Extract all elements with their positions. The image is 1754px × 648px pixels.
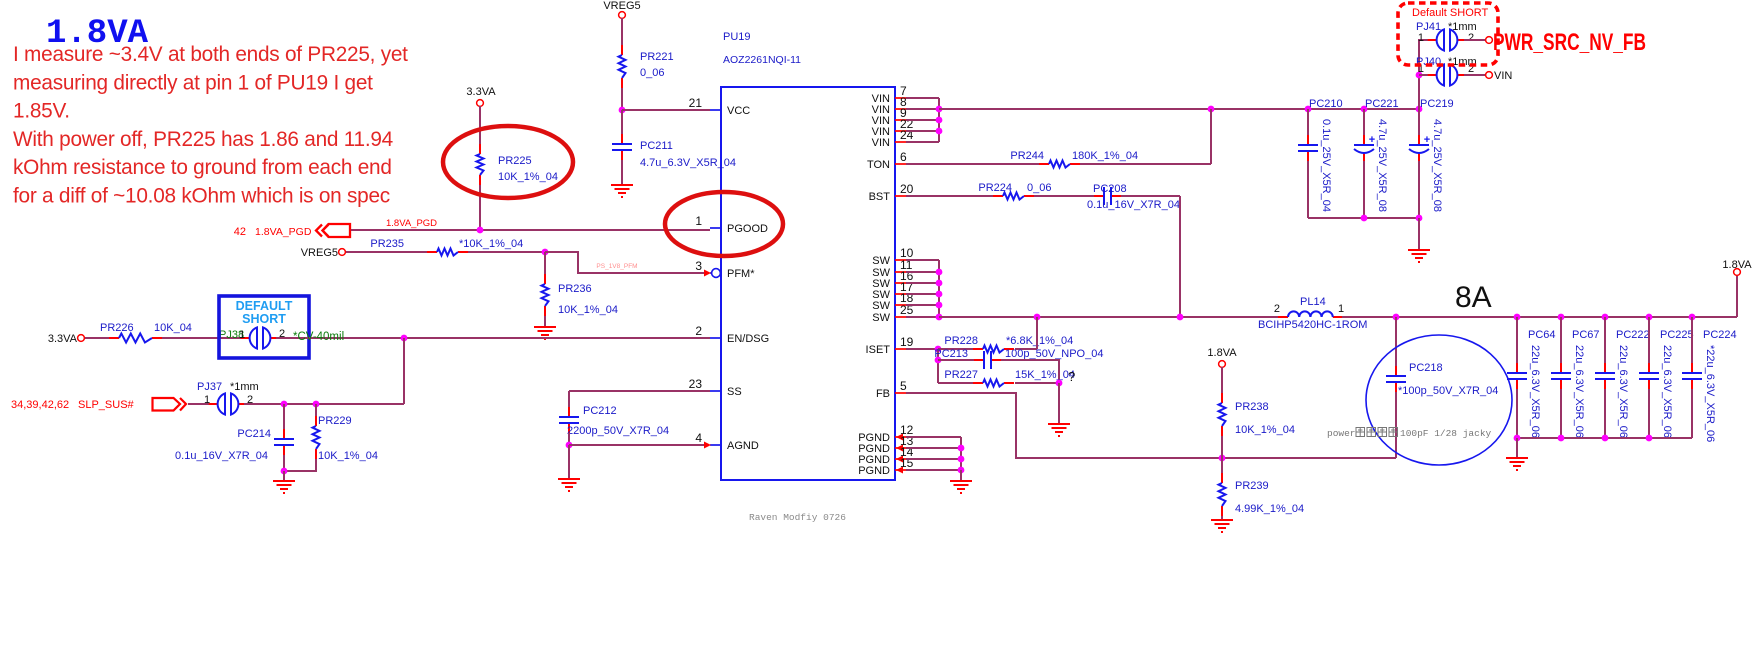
svg-text:VREG5: VREG5 xyxy=(301,247,338,259)
svg-text:?: ? xyxy=(1068,369,1075,384)
svg-text:PC221: PC221 xyxy=(1365,98,1399,110)
wire ISET down to PC213/PR227 xyxy=(937,349,939,383)
wire PC211 to ground xyxy=(621,160,623,185)
resistor PR238 10K_1%_04 xyxy=(1221,393,1223,403)
node SW/PR228 riser junction xyxy=(1034,314,1041,321)
pin 4 AGND xyxy=(710,444,721,446)
svg-text:PGOOD: PGOOD xyxy=(727,223,768,235)
node VIN rail junction PC219 xyxy=(1416,106,1423,113)
wire PC221 to bottom rail xyxy=(1363,161,1365,218)
svg-text:PR228: PR228 xyxy=(944,335,978,347)
wire SS down to PC212 xyxy=(568,391,570,407)
ground under input caps xyxy=(1408,250,1430,262)
resistor PR226 10K_04 xyxy=(109,337,119,339)
svg-text:22u_6.3V_X5R_06: 22u_6.3V_X5R_06 xyxy=(1661,345,1673,438)
ground under PC211 xyxy=(611,185,633,197)
ground under output caps xyxy=(1506,458,1528,470)
svg-text:+: + xyxy=(1369,134,1375,146)
svg-text:PC211: PC211 xyxy=(640,140,673,152)
ground under PR236 xyxy=(534,327,556,339)
wire PR221 to VCC node xyxy=(621,88,623,110)
wire PC218 to FB line xyxy=(1395,392,1397,458)
wire PR244 to VIN rail riser xyxy=(1080,163,1211,165)
svg-text:PC225: PC225 xyxy=(1660,329,1694,341)
svg-text:EN/DSG: EN/DSG xyxy=(727,333,769,345)
svg-text:1: 1 xyxy=(239,329,245,341)
wire PJ40 branch xyxy=(1419,74,1430,76)
svg-text:PR244: PR244 xyxy=(1010,150,1044,162)
svg-text:PR226: PR226 xyxy=(100,322,134,334)
wire PC67 to output bottom rail xyxy=(1560,389,1562,438)
svg-text:I measure ~3.4V at both ends o: I measure ~3.4V at both ends of PR225, y… xyxy=(13,43,408,66)
wire PJ38 to EN/DSG xyxy=(276,337,710,339)
wire PC224 to output bottom rail xyxy=(1691,389,1693,438)
svg-text:1: 1 xyxy=(1338,303,1344,315)
pin 8 VIN xyxy=(895,108,906,110)
capacitor PC225 22u_6.3V_X5R_06 xyxy=(1648,363,1650,372)
wire AGND node to ground xyxy=(568,445,570,479)
svg-text:kOhm resistance to ground from: kOhm resistance to ground from each end xyxy=(13,156,392,179)
svg-text:1.8VA: 1.8VA xyxy=(1207,347,1237,359)
wire down to PC214 xyxy=(283,404,285,429)
jumper PJ38 xyxy=(241,337,251,339)
wire PR226 to PJ38 xyxy=(162,337,244,339)
wire PR227 branch xyxy=(938,382,973,384)
pin 3 PFM* xyxy=(710,272,712,274)
wire junction to PFM xyxy=(545,252,704,273)
svg-text:4.99K_1%_04: 4.99K_1%_04 xyxy=(1235,503,1304,515)
svg-text:PR224: PR224 xyxy=(978,182,1012,194)
pin 14 PGND xyxy=(895,458,906,460)
wire input caps bottom rail xyxy=(1308,217,1419,219)
svg-text:100p_50V_NPO_04: 100p_50V_NPO_04 xyxy=(1005,348,1103,360)
wire PC222 to output bottom rail xyxy=(1604,389,1606,438)
svg-text:PFM*: PFM* xyxy=(727,268,755,280)
wire ISET to PR228 xyxy=(938,348,973,350)
svg-text:TON: TON xyxy=(867,159,890,171)
svg-text:PC213: PC213 xyxy=(934,348,968,360)
svg-text:20: 20 xyxy=(900,182,914,196)
wire PJ37 to EN riser xyxy=(244,403,404,405)
node FB/PR238 junction xyxy=(1219,455,1226,462)
pin 15 PGND xyxy=(895,469,906,471)
wire PR239 to ground xyxy=(1221,516,1223,520)
svg-text:BST: BST xyxy=(869,191,891,203)
wire 1.8VA rail xyxy=(1342,316,1737,318)
svg-text:VIN: VIN xyxy=(872,137,890,149)
capacitor PC211 4.7u_6.3V_X5R_04 xyxy=(621,134,623,143)
pin 1 PGOOD xyxy=(710,227,721,229)
wire VCC xyxy=(622,109,710,111)
wire SW pin bundle xyxy=(906,259,939,261)
wire PC214 to ground node xyxy=(283,455,285,471)
svg-text:8A: 8A xyxy=(1455,281,1492,314)
wire SW bus vertical xyxy=(938,260,940,317)
wire PJ41 to PWR_SRC_NV_FB xyxy=(1464,39,1486,41)
wire PC64 to output bottom rail xyxy=(1516,389,1518,438)
capacitor PC64 22u_6.3V_X5R_06 xyxy=(1516,363,1518,372)
svg-text:PC214: PC214 xyxy=(237,428,271,440)
wire down to ground xyxy=(1058,383,1060,424)
wire rail to PC64 xyxy=(1516,317,1518,363)
node SW bus junctions xyxy=(936,269,943,276)
svg-text:PC222: PC222 xyxy=(1616,329,1650,341)
svg-text:3.3VA: 3.3VA xyxy=(466,86,496,98)
svg-text:PR235: PR235 xyxy=(370,238,404,250)
ground under PR227 xyxy=(1048,424,1070,436)
capacitor PC219 4.7u_25V_X5R_08 xyxy=(1418,135,1420,144)
pin 2 EN/DSG xyxy=(710,337,721,339)
svg-text:4.7u_6.3V_X5R_04: 4.7u_6.3V_X5R_04 xyxy=(640,157,736,169)
svg-text:VCC: VCC xyxy=(727,105,750,117)
node bottom rail junction PC219 xyxy=(1416,215,1423,222)
wire FB node to PR239 xyxy=(1221,458,1223,473)
wire PGND to ground xyxy=(960,470,962,481)
wire riser to EN/DSG xyxy=(403,338,405,404)
jumper PJ37 *1mm xyxy=(209,403,219,405)
pin 13 PGND xyxy=(895,447,906,449)
node PJ40 junction xyxy=(1416,72,1423,79)
wire VCC to PC211 xyxy=(621,110,623,134)
resistor PR236 10K_1%_04 xyxy=(544,274,546,284)
svg-text:*1mm: *1mm xyxy=(230,381,259,393)
node SW/BST riser junction xyxy=(1177,314,1184,321)
capacitor PC221 4.7u_25V_X5R_08 xyxy=(1363,135,1365,144)
wire VIN rail xyxy=(939,108,1419,110)
svg-text:1: 1 xyxy=(204,394,210,406)
pin 5 FB xyxy=(895,392,906,394)
svg-text:Default SHORT: Default SHORT xyxy=(1412,7,1488,19)
svg-text:1.8VA_PGD: 1.8VA_PGD xyxy=(386,218,437,229)
node PC214 junction xyxy=(281,401,288,408)
wire 3.3VA to PR225 xyxy=(479,106,481,144)
node PR235/PR236 junction xyxy=(542,249,549,256)
svg-text:22u_6.3V_X5R_06: 22u_6.3V_X5R_06 xyxy=(1617,345,1629,438)
svg-text:2: 2 xyxy=(1274,303,1280,315)
wire AGND xyxy=(569,444,704,446)
wire VIN bus vertical xyxy=(938,98,940,142)
wire rail to PC218 xyxy=(1395,317,1397,366)
ground under PC214 xyxy=(273,481,295,493)
wire PR225 to 1.8VA_PGD net xyxy=(479,185,481,230)
svg-text:22u_6.3V_X5R_06: 22u_6.3V_X5R_06 xyxy=(1529,345,1541,438)
svg-text:5: 5 xyxy=(900,379,907,393)
pin 20 BST xyxy=(895,195,906,197)
svg-text:4.7u_25V_X5R_08: 4.7u_25V_X5R_08 xyxy=(1376,119,1388,212)
wire junction down to PR236 xyxy=(544,252,546,274)
node PGND bus junctions xyxy=(958,445,965,452)
op-amp U1 PU19 AOZ2261NQI-11 chip body xyxy=(721,87,895,480)
red ellipse highlight around PGOOD pin xyxy=(665,192,783,256)
wire riser PR228 to SW xyxy=(1036,317,1038,349)
power flag 1.8VA right xyxy=(1736,276,1738,317)
pin 24 VIN xyxy=(895,141,906,143)
svg-text:PR236: PR236 xyxy=(558,283,592,295)
svg-text:SW: SW xyxy=(872,255,890,267)
blue ellipse highlight around PC218 xyxy=(1366,335,1512,465)
wire output caps bottom rail xyxy=(1517,437,1692,439)
svg-text:PL14: PL14 xyxy=(1300,296,1326,308)
node ground junction PC214/PR229 xyxy=(281,468,288,475)
wire riser TON to VIN rail xyxy=(1210,109,1212,164)
svg-text:10K_1%_04: 10K_1%_04 xyxy=(318,450,378,462)
inductor PL14 BCIHP5420HC-1ROM xyxy=(1278,316,1288,318)
svg-text:*22u_6.3V_X5R_06: *22u_6.3V_X5R_06 xyxy=(1704,345,1716,442)
svg-text:42: 42 xyxy=(234,226,246,238)
svg-text:0.1u_16V_X7R_04: 0.1u_16V_X7R_04 xyxy=(175,450,268,462)
svg-text:PJ37: PJ37 xyxy=(197,381,222,393)
pin 18 SW xyxy=(895,304,906,306)
wire rail to PC225 xyxy=(1648,317,1650,363)
node VCC junction xyxy=(619,107,626,114)
ground under PR239 xyxy=(1211,520,1233,532)
svg-text:23: 23 xyxy=(689,377,703,391)
svg-text:PR225: PR225 xyxy=(498,155,532,167)
wire down to PR229 xyxy=(315,404,317,416)
svg-text:1.8VA_PGD: 1.8VA_PGD xyxy=(255,226,312,238)
svg-text:Raven Modfiy 0726: Raven Modfiy 0726 xyxy=(749,512,846,523)
wire PC219 to bottom rail xyxy=(1418,161,1420,218)
svg-text:AOZ2261NQI-11: AOZ2261NQI-11 xyxy=(723,54,801,66)
svg-text:PC67: PC67 xyxy=(1572,329,1600,341)
wire PC213 to corner xyxy=(1001,360,1059,383)
jumper PJ40 *1mm xyxy=(1428,74,1438,76)
svg-text:34,39,42,62: 34,39,42,62 xyxy=(11,399,69,411)
svg-text:10K_1%_04: 10K_1%_04 xyxy=(498,171,558,183)
wire rail to PC210 xyxy=(1307,109,1309,135)
wire PC225 to output bottom rail xyxy=(1648,389,1650,438)
svg-text:10K_1%_04: 10K_1%_04 xyxy=(558,304,618,316)
wire PR235 to junction xyxy=(468,251,545,253)
red ellipse highlight around PR225 xyxy=(443,126,573,198)
resistor PR244 180K_1%_04 xyxy=(1039,163,1049,165)
svg-text:PC210: PC210 xyxy=(1309,98,1343,110)
svg-text:0_06: 0_06 xyxy=(640,67,664,79)
wire to ground xyxy=(283,471,285,481)
wire SW to inductor xyxy=(939,316,1278,318)
capacitor PC213 100p_50V_NPO_04 xyxy=(974,359,983,361)
svg-text:PC219: PC219 xyxy=(1420,98,1454,110)
pin 16 SW xyxy=(895,282,906,284)
svg-text:PR238: PR238 xyxy=(1235,401,1269,413)
wire output rail to ground xyxy=(1516,438,1518,458)
jumper PJ41 *1mm xyxy=(1428,39,1438,41)
svg-text:With power off, PR225 has 1.86: With power off, PR225 has 1.86 and 11.94 xyxy=(13,128,393,151)
pin 10 SW xyxy=(895,259,906,261)
pin 22 VIN xyxy=(895,130,906,132)
wire rail to PC219 xyxy=(1418,109,1420,135)
wire rail to PC67 xyxy=(1560,317,1562,363)
svg-text:3: 3 xyxy=(695,259,702,273)
svg-text:PU19: PU19 xyxy=(723,31,751,43)
capacitor PC67 22u_6.3V_X5R_06 xyxy=(1560,363,1562,372)
pin 21 VCC xyxy=(710,109,721,111)
svg-text:180K_1%_04: 180K_1%_04 xyxy=(1072,150,1138,162)
node output bottom rail junctions xyxy=(1514,435,1521,442)
wire FB xyxy=(906,393,1396,458)
resistor PR227 15K_1%_04 xyxy=(973,382,983,384)
svg-text:*10K_1%_04: *10K_1%_04 xyxy=(459,238,523,250)
svg-text:0_06: 0_06 xyxy=(1027,182,1051,194)
svg-text:PC218: PC218 xyxy=(1409,362,1443,374)
resistor PR235 *10K_1%_04 xyxy=(427,251,437,253)
svg-text:measuring directly at pin 1 of: measuring directly at pin 1 of PU19 I ge… xyxy=(13,71,373,94)
pin 17 SW xyxy=(895,293,906,295)
svg-text:SLP_SUS#: SLP_SUS# xyxy=(78,399,135,411)
wire PC208 to SW riser xyxy=(1121,195,1180,197)
wire PGND pin bundle xyxy=(906,436,961,438)
svg-text:PC64: PC64 xyxy=(1528,329,1556,341)
wire VREG5 to PR221 xyxy=(621,18,623,45)
node VIN rail junction PC221 xyxy=(1361,106,1368,113)
svg-text:PR229: PR229 xyxy=(318,415,352,427)
svg-text:22u_6.3V_X5R_06: 22u_6.3V_X5R_06 xyxy=(1573,345,1585,438)
node PR229 junction xyxy=(313,401,320,408)
svg-text:SW: SW xyxy=(872,312,890,324)
DEFAULT SHORT box xyxy=(219,296,309,358)
wire bottom rail to ground xyxy=(1418,218,1420,250)
wire SS xyxy=(569,390,710,392)
svg-text:*100p_50V_X7R_04: *100p_50V_X7R_04 xyxy=(1398,385,1498,397)
wire 1.8VA_PGD to PGOOD xyxy=(351,229,710,231)
svg-text:power: power xyxy=(1327,428,1356,439)
svg-text:2: 2 xyxy=(695,324,702,338)
wire riser BST to SW xyxy=(1179,196,1181,317)
wire PR227 to ground node xyxy=(1015,382,1059,384)
node bottom rail junction PC221 xyxy=(1361,215,1368,222)
resistor PR221 0_06 xyxy=(621,45,623,55)
svg-text:DEFAULT: DEFAULT xyxy=(236,299,293,313)
svg-text:PC212: PC212 xyxy=(583,405,617,417)
ground under PC212 xyxy=(558,479,580,491)
node VIN bus junctions xyxy=(936,106,943,113)
node PC213 junction xyxy=(935,357,942,364)
svg-text:PR221: PR221 xyxy=(640,51,674,63)
svg-text:21: 21 xyxy=(689,96,703,110)
wire PR229 to ground node xyxy=(284,459,316,471)
resistor PR229 10K_1%_04 xyxy=(315,416,317,426)
svg-text:PC208: PC208 xyxy=(1093,183,1127,195)
svg-text:3.3VA: 3.3VA xyxy=(48,333,78,345)
svg-text:1: 1 xyxy=(695,214,702,228)
wire VREG5 to PR235 xyxy=(346,251,427,253)
wire PR236 to ground xyxy=(544,316,546,327)
pin 11 SW xyxy=(895,271,906,273)
wire PC210 to bottom rail xyxy=(1307,161,1309,218)
pin 19 ISET xyxy=(895,348,906,350)
node ISET junction xyxy=(935,346,942,353)
svg-text:*6.8K_1%_04: *6.8K_1%_04 xyxy=(1006,335,1073,347)
resistor PR224 0_06 xyxy=(993,195,1003,197)
svg-text:SHORT: SHORT xyxy=(242,312,286,326)
pin 7 VIN xyxy=(895,97,906,99)
svg-text:PC224: PC224 xyxy=(1703,329,1737,341)
svg-text:19: 19 xyxy=(900,335,914,349)
node AGND junction xyxy=(566,442,573,449)
svg-text:ISET: ISET xyxy=(866,344,891,356)
node VIN rail junction PC210 xyxy=(1305,106,1312,113)
svg-text:2: 2 xyxy=(1468,32,1474,44)
svg-text:4: 4 xyxy=(695,431,702,445)
svg-text:+: + xyxy=(1424,134,1430,146)
svg-text:PWR_SRC_NV_FB: PWR_SRC_NV_FB xyxy=(1493,29,1646,56)
node EN junction xyxy=(401,335,408,342)
svg-text:4.7u_25V_X5R_08: 4.7u_25V_X5R_08 xyxy=(1431,119,1443,212)
wire PJ40 to VIN xyxy=(1464,74,1486,76)
svg-text:1.85V.: 1.85V. xyxy=(13,100,70,123)
capacitor PC212 2200p_50V_X7R_04 xyxy=(568,407,570,416)
svg-text:AGND: AGND xyxy=(727,440,759,452)
ground under PGND xyxy=(950,481,972,493)
svg-text:2200p_50V_X7R_04: 2200p_50V_X7R_04 xyxy=(567,425,669,437)
svg-text:PR239: PR239 xyxy=(1235,480,1269,492)
resistor PR239 4.99K_1%_04 xyxy=(1221,473,1223,483)
svg-text:PGND: PGND xyxy=(858,465,890,477)
node VIN/TON riser junction xyxy=(1208,106,1215,113)
resistor PR228 *6.8K_1%_04 xyxy=(973,348,983,350)
wire PR238 to FB node xyxy=(1221,436,1223,458)
svg-text:VREG5: VREG5 xyxy=(603,0,640,12)
wire VIN pin bundle xyxy=(906,97,939,99)
svg-text:10K_04: 10K_04 xyxy=(154,322,192,334)
Default SHORT dashed box xyxy=(1398,3,1498,65)
pin 25 SW xyxy=(895,316,906,318)
svg-text:FB: FB xyxy=(876,388,890,400)
wire 3.3VA to PR226 xyxy=(85,337,109,339)
svg-text:PR227: PR227 xyxy=(944,369,978,381)
svg-text:0.1u_25V_X5R_04: 0.1u_25V_X5R_04 xyxy=(1320,119,1332,212)
wire BST xyxy=(906,195,993,197)
wire TON xyxy=(906,163,1039,165)
capacitor PC224 *22u_6.3V_X5R_06 xyxy=(1691,363,1693,372)
svg-text:*CV-40mil: *CV-40mil xyxy=(293,331,344,343)
svg-text:1: 1 xyxy=(1418,32,1424,44)
node PR227/PC213 ground junction xyxy=(1056,380,1063,387)
wire PJ41/PJ40 riser xyxy=(1419,40,1430,109)
node rail junctions xyxy=(1393,314,1400,321)
svg-text:10K_1%_04: 10K_1%_04 xyxy=(1235,424,1295,436)
wire PC212 to AGND line xyxy=(568,433,570,445)
pin 6 TON xyxy=(895,163,906,165)
svg-text:BCIHP5420HC-1ROM: BCIHP5420HC-1ROM xyxy=(1258,319,1367,331)
wire rail to PC221 xyxy=(1363,109,1365,135)
wire rail to PC224 xyxy=(1691,317,1693,363)
resistor PR225 10K_1%_04 xyxy=(479,144,481,154)
capacitor PC218 *100p_50V_X7R_04 xyxy=(1395,366,1397,375)
svg-text:PS_1V8_PFM: PS_1V8_PFM xyxy=(596,263,637,270)
wire PR228 to SW riser xyxy=(1015,348,1037,350)
capacitor PC210 0.1u_25V_X5R_04 xyxy=(1307,135,1309,144)
node PR225/PGD junction xyxy=(477,227,484,234)
wire PR224 to PC208 xyxy=(1034,195,1094,197)
svg-text:100pF 1/28 jacky: 100pF 1/28 jacky xyxy=(1400,428,1492,439)
wire PC213 branch xyxy=(938,359,975,361)
svg-text:15K_1%_04: 15K_1%_04 xyxy=(1015,369,1075,381)
capacitor PC214 0.1u_16V_X7R_04 xyxy=(283,429,285,438)
svg-text:0.1u_16V_X7R_04: 0.1u_16V_X7R_04 xyxy=(1087,199,1180,211)
wire 1.8VA to PR238 xyxy=(1221,367,1223,393)
wire PGND bus vertical xyxy=(960,437,962,470)
svg-text:SS: SS xyxy=(727,386,742,398)
capacitor PC222 22u_6.3V_X5R_06 xyxy=(1604,363,1606,372)
svg-text:6: 6 xyxy=(900,150,907,164)
svg-text:VIN: VIN xyxy=(1494,70,1512,82)
wire ISET xyxy=(906,348,938,350)
svg-text:for a diff of ~10.08 kOhm whic: for a diff of ~10.08 kOhm which is on sp… xyxy=(13,185,390,208)
svg-text:SW: SW xyxy=(872,300,890,312)
capacitor PC208 0.1u_16V_X7R_04 xyxy=(1094,195,1103,197)
pin 23 SS xyxy=(710,390,721,392)
